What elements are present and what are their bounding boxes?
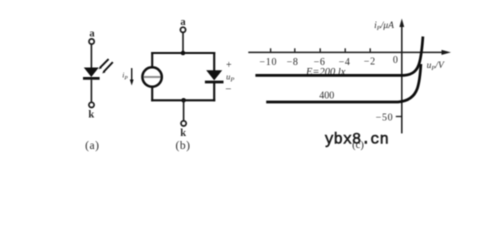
svg-text:iP/μA: iP/μA bbox=[374, 21, 394, 32]
svg-text:−50: −50 bbox=[376, 113, 394, 124]
svg-text:uP: uP bbox=[226, 71, 234, 83]
svg-text:+: + bbox=[226, 60, 232, 71]
svg-text:a: a bbox=[180, 17, 186, 28]
svg-text:−8: −8 bbox=[287, 57, 299, 68]
svg-text:a: a bbox=[89, 29, 95, 40]
svg-text:uP/V: uP/V bbox=[427, 61, 445, 72]
svg-text:0: 0 bbox=[393, 55, 399, 66]
svg-text:iP: iP bbox=[122, 71, 128, 82]
svg-text:k: k bbox=[88, 109, 94, 120]
svg-text:(a): (a) bbox=[85, 140, 99, 152]
svg-text:−2: −2 bbox=[364, 57, 376, 68]
svg-text:400: 400 bbox=[319, 90, 334, 101]
svg-text:−10: −10 bbox=[259, 57, 277, 68]
svg-text:k: k bbox=[180, 128, 186, 139]
svg-text:−: − bbox=[225, 83, 231, 95]
svg-text:ybx8.cn: ybx8.cn bbox=[325, 131, 389, 149]
svg-text:(b): (b) bbox=[176, 140, 191, 152]
